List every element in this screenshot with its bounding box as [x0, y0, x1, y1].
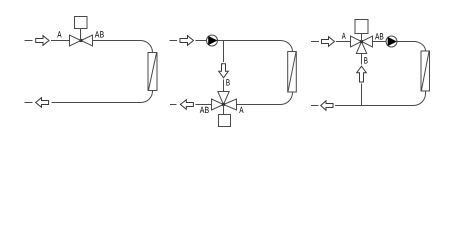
svg-text:B: B	[226, 78, 230, 88]
wire return stub d1	[25, 102, 33, 104]
pipe valve to top-right corner d1	[93, 41, 153, 53]
pump P3 circle	[386, 36, 397, 47]
wire supply stub d2	[170, 40, 178, 42]
port label B d3	[364, 56, 368, 66]
wire supply stub d3	[311, 41, 319, 43]
port label AB d1	[95, 30, 104, 40]
flow arrow return d2 (left)	[180, 100, 193, 110]
pump P2 circle	[207, 35, 218, 46]
svg-text:A: A	[239, 105, 243, 115]
pump P2 impeller triangle	[208, 36, 217, 45]
svg-text:A: A	[342, 31, 346, 41]
load (heat exchanger) d1	[148, 53, 157, 91]
flow arrow supply d1 (right)	[36, 36, 49, 46]
wire branch to valve port B d2	[223, 80, 225, 92]
valve V2 body (three-way)	[212, 92, 237, 111]
flow arrow return d3 (left)	[321, 101, 333, 111]
port label AB d2	[200, 105, 209, 115]
actuator M2 box	[219, 115, 231, 127]
pipe pump to top-right corner d2	[218, 41, 293, 52]
pipe load to valve port A d2	[237, 92, 293, 105]
branch tee down d2	[223, 41, 225, 63]
wire branch from return line d3	[361, 84, 363, 106]
wire supply stub d1	[25, 40, 33, 42]
valve V2 center dot	[222, 103, 225, 106]
svg-text:AB: AB	[95, 30, 104, 40]
svg-text:AB: AB	[375, 31, 384, 41]
pipe load to bottom-left d1	[52, 91, 153, 103]
valve V3 body (three-way)	[351, 36, 373, 54]
wire valve port B stem d3	[361, 54, 363, 65]
wire return stub d2	[170, 104, 177, 106]
wire supply to pump d2	[196, 40, 207, 42]
port label A d1	[57, 30, 61, 40]
flow arrow branch d3 (up)	[357, 66, 367, 82]
pump P3 impeller triangle	[388, 37, 397, 46]
flow arrow supply d3 (right)	[322, 37, 335, 47]
port label B d2	[226, 78, 230, 88]
flow arrow supply d2 (right)	[180, 36, 194, 46]
port label A d3	[342, 31, 346, 41]
wire return stub d3	[311, 105, 319, 107]
load (heat exchanger) d3	[421, 51, 430, 91]
actuator M1 box	[75, 17, 88, 29]
load (heat exchanger) d2	[288, 52, 297, 93]
svg-text:B: B	[364, 56, 368, 66]
actuator stem d2	[223, 105, 225, 115]
wire valve AB to return arrow d2	[196, 104, 212, 106]
actuator stem d1	[80, 29, 82, 41]
port label A d2	[239, 105, 243, 115]
wire valve AB to pump d3	[373, 41, 387, 43]
port label AB d3	[375, 31, 384, 41]
valve V1 body (two-way)	[70, 35, 93, 46]
valve V3 center dot	[360, 40, 363, 43]
actuator stem d3	[361, 34, 363, 42]
valve V1 center dot	[79, 39, 82, 42]
flow arrow return d1 (left)	[36, 98, 49, 108]
flow arrow branch d2 (down)	[219, 64, 229, 78]
wire supply to valve d3	[336, 41, 351, 43]
pipe pump to top-right corner d3	[397, 42, 426, 52]
actuator M3 box	[355, 20, 368, 34]
svg-text:A: A	[57, 30, 61, 40]
pipe load to bottom-left d3	[335, 91, 426, 106]
svg-text:AB: AB	[200, 105, 209, 115]
wire supply to valve d1	[51, 40, 70, 42]
